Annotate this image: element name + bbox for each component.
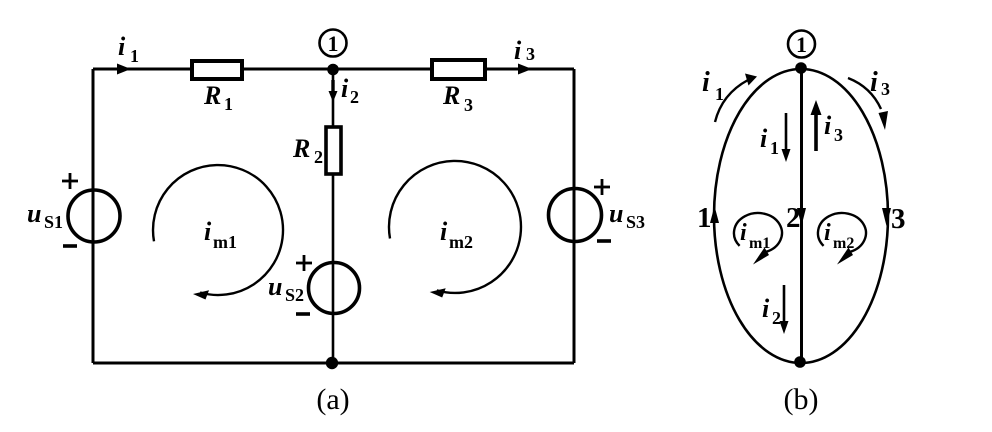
svg-text:R: R [442,81,460,110]
current arrow i2 (a) [329,74,360,107]
resistor R2 [292,127,341,174]
svg-text:(b): (b) [784,383,819,416]
svg-text:i: i [824,111,832,140]
wire left (a) [92,69,95,363]
svg-text:1: 1 [328,31,339,56]
wire bottom (a) [93,362,574,365]
label (a) [316,383,349,416]
current arrow i1 [117,32,139,75]
svg-text:1: 1 [697,202,712,234]
wire middle branch (a) [332,69,335,363]
voltage source uS3 [549,179,646,242]
svg-text:S1: S1 [44,212,63,232]
svg-text:i: i [204,217,212,246]
svg-text:3: 3 [891,203,906,235]
svg-text:i: i [740,220,747,246]
svg-text:3: 3 [881,79,890,99]
svg-text:2: 2 [314,147,323,167]
voltage source uS2 [268,255,360,314]
svg-text:m1: m1 [213,232,237,252]
branch label 3 with arrow (b) [882,203,906,235]
svg-text:m2: m2 [833,235,854,252]
junction node top (a) [327,64,339,76]
svg-text:i: i [514,36,522,65]
current arrow i2 (b) [762,285,789,334]
svg-text:3: 3 [464,95,473,115]
resistor R1 [192,61,242,114]
loop im2 (b) [818,213,866,264]
node 1 (b) [788,31,815,74]
node bottom (b) [794,356,806,368]
svg-text:m2: m2 [449,232,473,252]
svg-text:R: R [203,81,221,110]
mesh current im2 [389,161,521,298]
svg-text:i: i [341,74,349,103]
mesh current im1 [153,165,283,299]
svg-text:1: 1 [130,46,139,66]
loop im1 (b) [734,213,782,264]
svg-text:1: 1 [796,32,807,57]
node 1 label (a) [320,30,347,57]
branch 2 wire (b) [800,69,803,363]
current arrow i3 outer (b) [848,67,890,130]
svg-text:u: u [27,199,41,228]
svg-text:i: i [824,220,831,246]
svg-text:S3: S3 [626,212,645,232]
svg-text:i: i [440,217,448,246]
branch label 1 with arrow (b) [697,202,719,234]
current arrow i1 outer (b) [702,67,757,122]
svg-text:i: i [762,294,770,323]
wire top (a) [93,68,574,71]
wire right (a) [573,69,576,363]
svg-text:i: i [118,32,126,61]
graph ellipse (b) [714,69,888,363]
svg-text:1: 1 [715,84,724,104]
svg-text:(a): (a) [316,383,349,416]
svg-text:3: 3 [526,44,535,64]
svg-text:i: i [760,124,768,153]
svg-text:1: 1 [224,94,233,114]
svg-text:R: R [292,134,310,163]
svg-text:S2: S2 [285,285,304,305]
label (b) [784,383,819,416]
junction node bottom (a) [326,357,338,369]
svg-text:3: 3 [834,125,843,145]
current arrow i3 inner (b) [811,100,844,151]
svg-text:m1: m1 [749,235,770,252]
voltage source uS1 [27,173,120,246]
svg-text:2: 2 [772,308,781,328]
svg-text:1: 1 [770,138,779,158]
svg-text:i: i [870,67,878,98]
svg-text:u: u [609,199,623,228]
current arrow i1 inner (b) [760,113,791,162]
branch label 2 with arrow (b) [786,202,806,234]
svg-text:i: i [702,67,710,98]
svg-text:2: 2 [786,202,801,234]
resistor R3 [432,60,485,115]
current arrow i3 [514,36,535,75]
svg-text:2: 2 [350,87,359,107]
svg-text:u: u [268,272,282,301]
